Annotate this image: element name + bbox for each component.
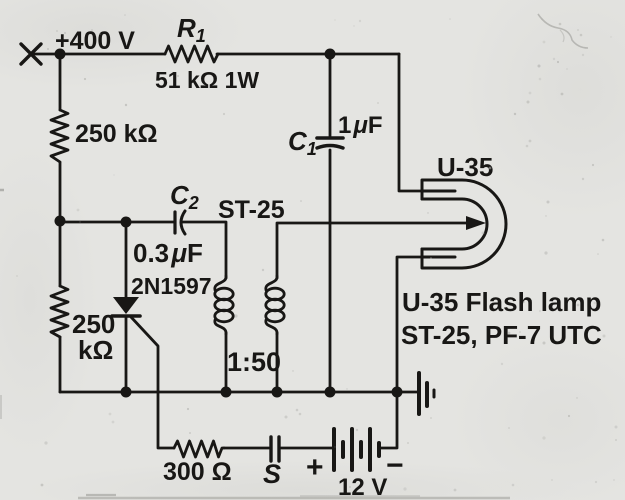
battery long plate 3 bbox=[368, 429, 372, 470]
ground bar 2 bbox=[425, 383, 429, 406]
battery short plate 2 bbox=[359, 442, 363, 457]
junction dot lamp battery ground bbox=[392, 387, 403, 398]
svg-text:U-35: U-35 bbox=[437, 152, 493, 182]
capacitor C2 plate right bbox=[181, 211, 185, 234]
svg-text:+: + bbox=[306, 451, 324, 484]
wire left vertical lower bbox=[59, 221, 62, 286]
transformer T1 primary coil bbox=[215, 276, 226, 290]
SCR cathode bar bbox=[112, 314, 140, 318]
junction dot +400V node bbox=[55, 49, 66, 60]
junction dot SCR anode bbox=[121, 217, 132, 228]
wire battery riser bbox=[381, 392, 397, 448]
wire secondary bottom bbox=[276, 333, 279, 392]
transformer T1 secondary coil bbox=[266, 276, 277, 290]
resistor 250k upper bbox=[51, 110, 68, 162]
wire left bottom corner bbox=[59, 337, 62, 392]
junction dot mid rail left bbox=[55, 216, 66, 227]
svg-text:0.3 μF: 0.3 μF bbox=[133, 238, 203, 268]
svg-text:ST-25: ST-25 bbox=[218, 196, 285, 224]
battery short plate 3 bbox=[377, 443, 381, 456]
svg-text:51 kΩ 1W: 51 kΩ 1W bbox=[155, 67, 259, 93]
flash lamp top electrode bbox=[422, 190, 455, 193]
resistor 250k lower bbox=[51, 286, 68, 337]
svg-text:1:50: 1:50 bbox=[227, 347, 281, 377]
wire left vertical upper bbox=[59, 54, 62, 110]
svg-text:250 kΩ: 250 kΩ bbox=[75, 120, 158, 148]
terminal X bbox=[21, 44, 41, 64]
battery long plate 2 bbox=[350, 429, 354, 470]
wire lamp cathode lead bbox=[397, 257, 422, 392]
wire switch to battery bbox=[281, 447, 332, 450]
capacitor C2 plate left bbox=[173, 212, 176, 233]
svg-text:2N1597: 2N1597 bbox=[131, 273, 212, 299]
capacitor C1 plate top bbox=[317, 136, 343, 140]
flash lamp tube inner wall bbox=[422, 199, 487, 249]
wire SCR anode bbox=[125, 222, 128, 298]
wire C1 top bbox=[329, 54, 332, 136]
svg-text:−: − bbox=[386, 449, 404, 482]
ground bar 1 bbox=[417, 373, 421, 414]
wire ground rail bbox=[60, 391, 397, 394]
junction dot secondary ground bbox=[272, 387, 283, 398]
svg-text:+400 V: +400 V bbox=[55, 27, 135, 55]
svg-text:300 Ω: 300 Ω bbox=[163, 458, 232, 486]
battery long plate 1 bbox=[332, 429, 336, 470]
wire primary bottom bbox=[225, 333, 228, 392]
wire C2 to transformer primary bbox=[183, 222, 226, 278]
wire C1 bottom bbox=[329, 150, 332, 392]
svg-text:S: S bbox=[263, 459, 281, 489]
svg-text:kΩ: kΩ bbox=[78, 335, 113, 365]
svg-text:U-35 Flash lamp: U-35 Flash lamp bbox=[402, 287, 601, 317]
junction dot C1 top bbox=[325, 49, 336, 60]
wire SCR gate bbox=[131, 317, 174, 448]
wire top rail right bbox=[217, 53, 399, 56]
capacitor C1 plate bottom bbox=[317, 146, 343, 149]
wire resistor to switch bbox=[224, 447, 269, 450]
switch S contacts bbox=[271, 437, 279, 461]
wire secondary top to lamp trigger bbox=[277, 223, 467, 278]
battery short plate 1 bbox=[341, 442, 345, 457]
flash lamp tube outer wall bbox=[422, 180, 506, 268]
resistor R1 bbox=[165, 46, 218, 62]
trigger arrowhead bbox=[466, 216, 486, 230]
flash lamp bottom electrode bbox=[422, 256, 455, 259]
ground tick bbox=[433, 390, 436, 397]
junction dot C1 ground bbox=[325, 387, 336, 398]
wire mid rail to C2 bbox=[60, 221, 175, 224]
resistor 300ohm bbox=[174, 441, 224, 457]
wire SCR cathode bbox=[125, 316, 128, 392]
wire top rail left bbox=[31, 53, 165, 56]
wire ground stub bbox=[397, 391, 419, 394]
junction dot primary ground bbox=[221, 387, 232, 398]
wire left vertical middle bbox=[59, 163, 62, 221]
SCR 2N1597 triangle bbox=[113, 297, 139, 314]
svg-text:1 μF: 1 μF bbox=[338, 112, 383, 139]
junction dot SCR cathode ground bbox=[121, 387, 132, 398]
wire lamp anode lead bbox=[399, 54, 422, 191]
svg-text:ST-25, PF-7 UTC: ST-25, PF-7 UTC bbox=[401, 320, 602, 350]
